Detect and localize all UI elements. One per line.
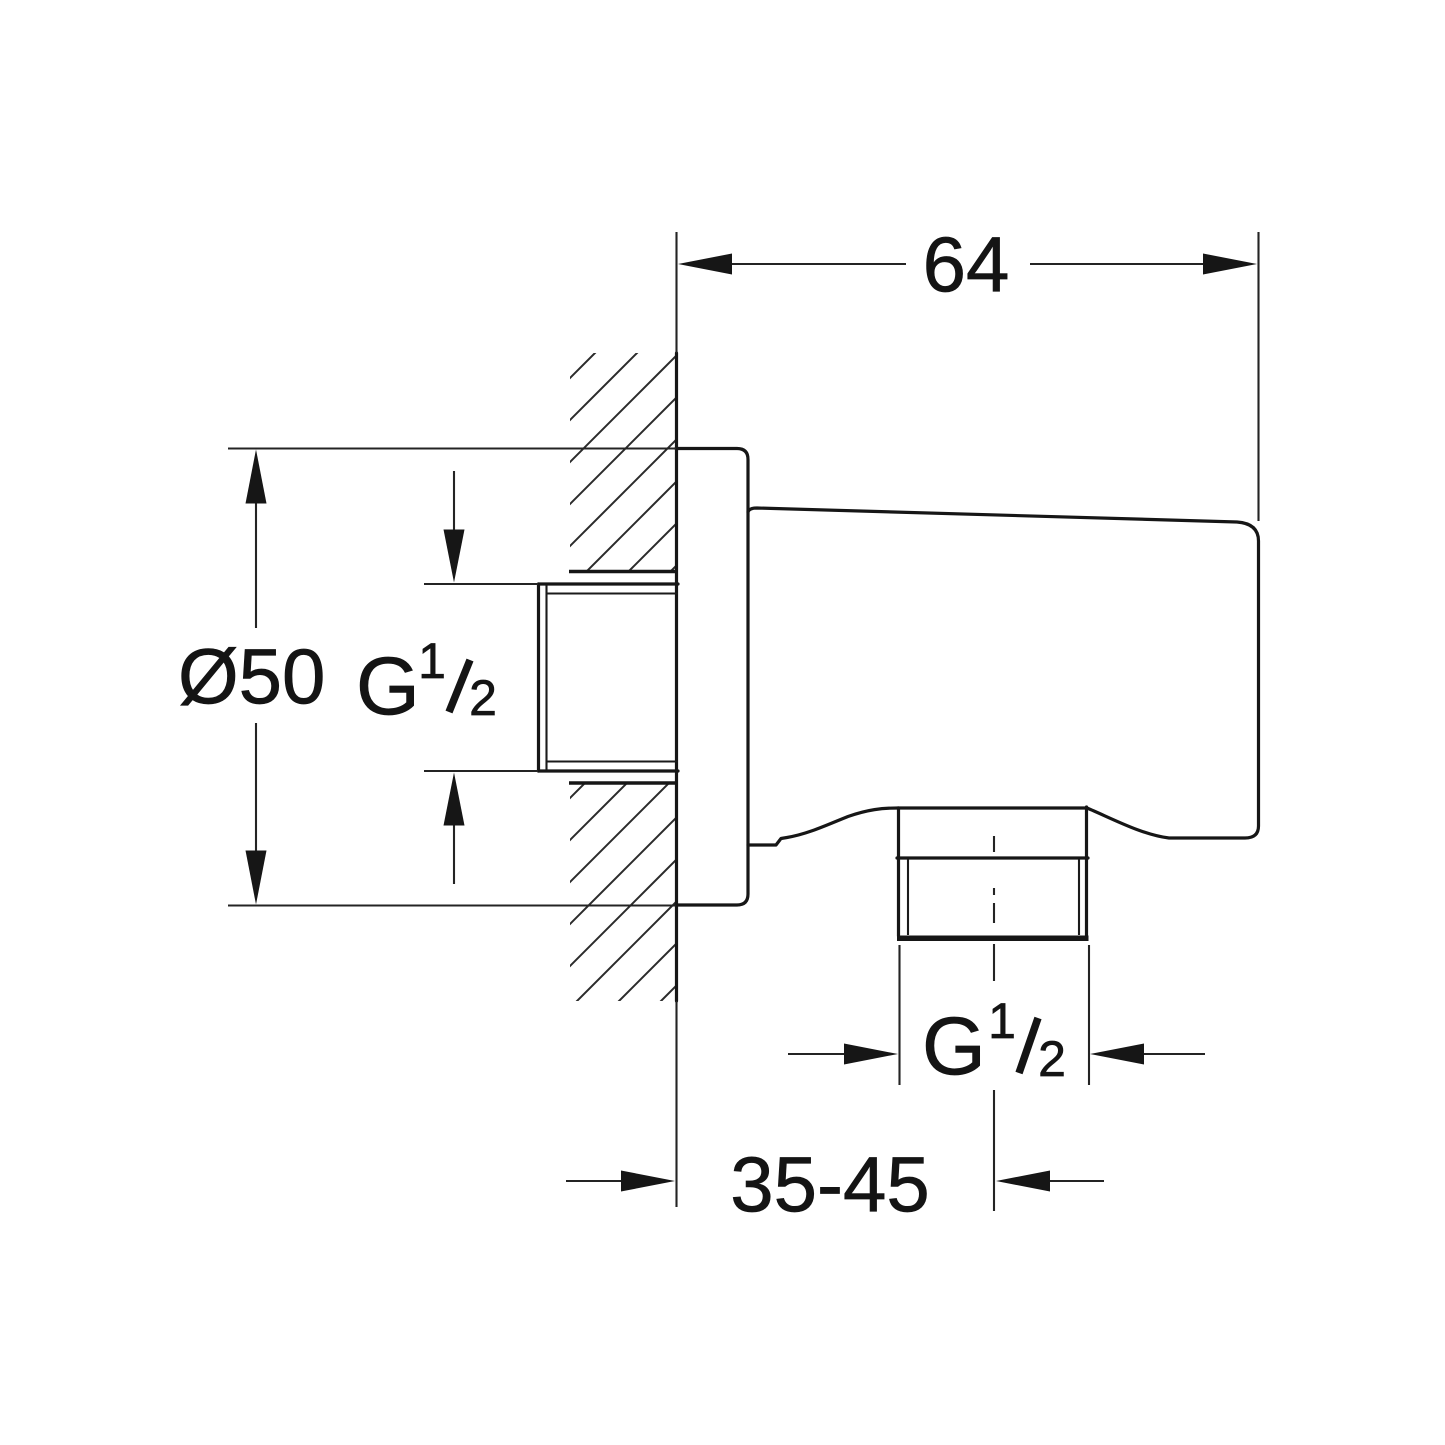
- dimension diameter 50: [178, 449, 676, 906]
- svg-text:64: 64: [923, 220, 1010, 308]
- dimension 35-45: [566, 1001, 1104, 1228]
- dimension G1/2 rear inlet: [356, 471, 538, 884]
- outlet thread G1/2: [897, 858, 1089, 941]
- wall hole bottom edge: [569, 781, 677, 784]
- outlet boss: [897, 807, 1088, 858]
- dimension 64: [677, 220, 1259, 521]
- rear inlet thread G1/2 pipe: [539, 584, 679, 771]
- svg-text:35-45: 35-45: [730, 1140, 930, 1228]
- body outline top: [748, 508, 1259, 838]
- wall hole top edge: [569, 570, 677, 573]
- svg-text:G: G: [922, 1001, 986, 1092]
- svg-text:G: G: [356, 641, 420, 732]
- dimension G1/2 outlet: [788, 945, 1205, 1092]
- centerline: [993, 836, 995, 1211]
- svg-text:2: 2: [469, 670, 497, 726]
- wall flange escutcheon: [676, 449, 748, 906]
- svg-text:2: 2: [1038, 1031, 1066, 1087]
- body outline bottom left: [748, 808, 898, 845]
- svg-text:Ø50: Ø50: [178, 632, 325, 720]
- wall face line: [675, 353, 678, 1001]
- svg-text:1: 1: [988, 993, 1016, 1049]
- svg-text:1: 1: [418, 633, 446, 689]
- wall hatching: [562, 270, 678, 1100]
